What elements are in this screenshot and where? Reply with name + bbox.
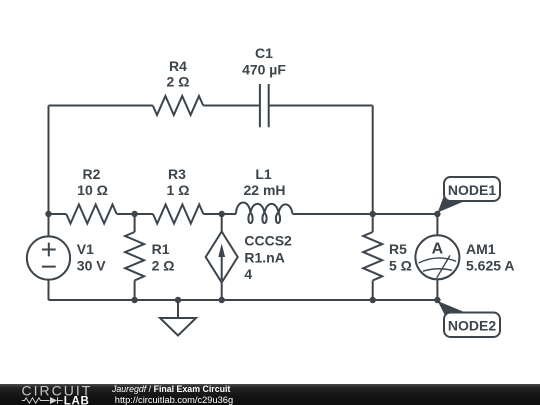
svg-text:V1: V1 xyxy=(77,241,94,257)
svg-text:470 µF: 470 µF xyxy=(242,61,286,77)
svg-text:NODE1: NODE1 xyxy=(448,182,496,198)
svg-text:C1: C1 xyxy=(255,45,273,61)
svg-text:4: 4 xyxy=(244,266,252,282)
svg-text:NODE2: NODE2 xyxy=(448,317,496,333)
svg-text:R1: R1 xyxy=(152,241,170,257)
svg-text:R2: R2 xyxy=(83,166,101,182)
svg-text:2 Ω: 2 Ω xyxy=(167,74,190,90)
svg-text:30 V: 30 V xyxy=(77,258,106,274)
svg-text:http://circuitlab.com/c29u36g: http://circuitlab.com/c29u36g xyxy=(115,395,233,405)
svg-text:22 mH: 22 mH xyxy=(243,182,285,198)
svg-text:CCCS2: CCCS2 xyxy=(244,233,292,249)
svg-text:5.625 A: 5.625 A xyxy=(466,258,515,274)
svg-text:AM1: AM1 xyxy=(466,241,496,257)
svg-text:5 Ω: 5 Ω xyxy=(389,258,412,274)
svg-text:A: A xyxy=(432,241,444,258)
svg-text:10 Ω: 10 Ω xyxy=(77,182,108,198)
svg-text:Jauregdf / Final Exam Circuit: Jauregdf / Final Exam Circuit xyxy=(111,384,230,394)
svg-text:1 Ω: 1 Ω xyxy=(167,182,190,198)
svg-text:2 Ω: 2 Ω xyxy=(152,258,175,274)
svg-text:R4: R4 xyxy=(169,58,187,74)
svg-text:R1.nA: R1.nA xyxy=(244,250,284,266)
svg-text:R3: R3 xyxy=(168,166,186,182)
svg-text:LAB: LAB xyxy=(64,395,90,405)
svg-text:R5: R5 xyxy=(389,241,407,257)
svg-text:L1: L1 xyxy=(255,166,272,182)
